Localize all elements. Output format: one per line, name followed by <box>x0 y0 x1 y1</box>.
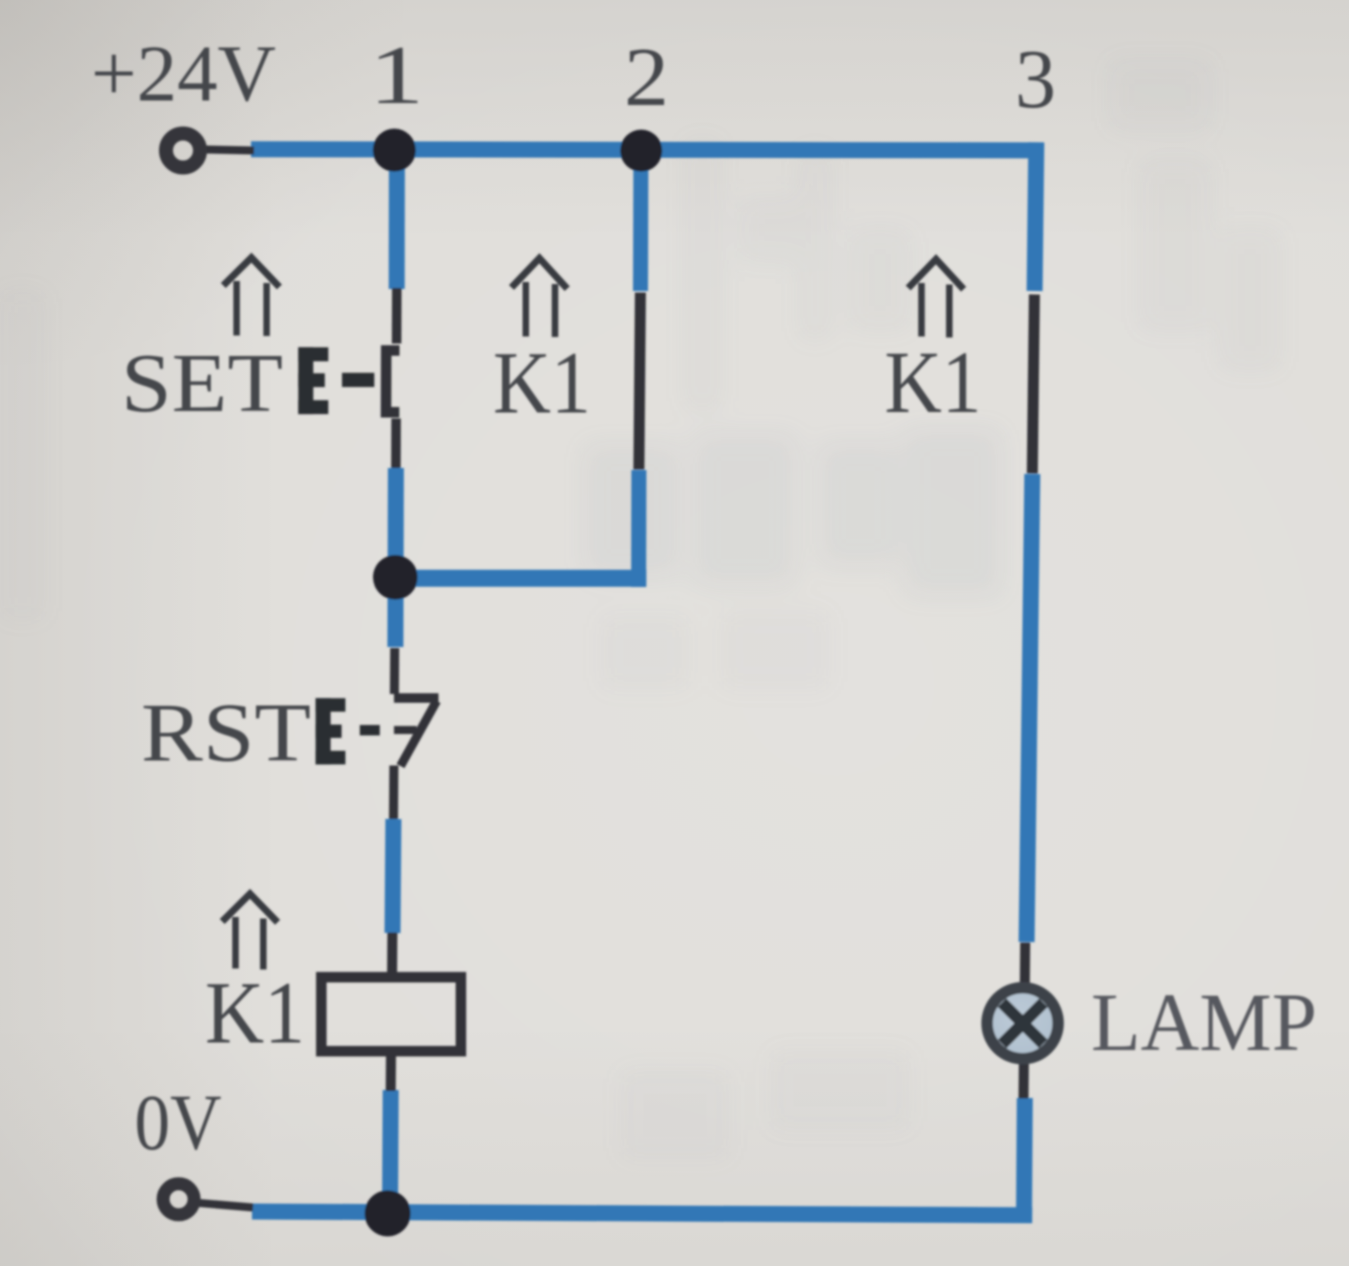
svg-text:K1: K1 <box>205 965 305 1063</box>
svg-text:1: 1 <box>369 29 424 122</box>
svg-text:K1: K1 <box>885 334 982 432</box>
svg-text:2: 2 <box>624 31 669 124</box>
svg-text:K1: K1 <box>493 335 591 433</box>
svg-text:RST: RST <box>141 687 311 780</box>
svg-text:+24V: +24V <box>91 29 276 119</box>
svg-text:3: 3 <box>1015 33 1056 126</box>
svg-text:LAMP: LAMP <box>1091 976 1317 1068</box>
svg-text:SET: SET <box>121 337 283 430</box>
svg-text:0V: 0V <box>135 1080 222 1167</box>
